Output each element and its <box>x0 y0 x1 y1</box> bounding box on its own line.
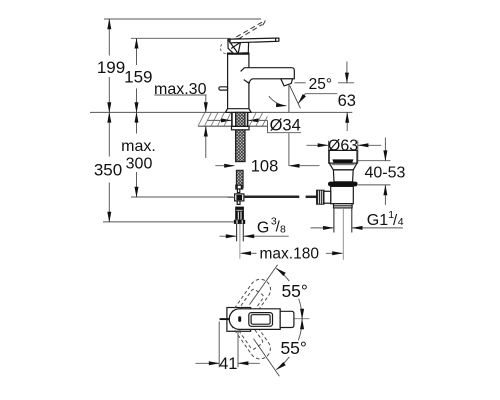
spout block <box>244 68 294 84</box>
dimension 108 arrows <box>215 133 319 166</box>
body top thick edge <box>227 52 250 54</box>
svg-text:55°: 55° <box>281 281 307 301</box>
dimension 41 arrows <box>196 362 220 364</box>
cross joint of pop-up rod <box>235 194 244 201</box>
pop-up O-ring <box>328 182 358 187</box>
G3/8 threaded tail pipe <box>236 224 238 241</box>
deck hatching right of shank <box>249 113 267 126</box>
pop-up flange <box>329 163 357 170</box>
dimension 25° leader with arrow <box>298 94 337 104</box>
dimension 40-53 arrows and extension lines <box>358 138 391 205</box>
pop-up rod level reference line (max.300) <box>131 196 233 198</box>
svg-text:350: 350 <box>94 161 122 180</box>
rod inlet port <box>323 191 331 203</box>
svg-text:G: G <box>257 220 269 237</box>
svg-text:Ø63: Ø63 <box>328 138 358 155</box>
svg-text:199: 199 <box>97 58 125 77</box>
handle lever bar <box>230 38 279 43</box>
pop-up neck <box>333 170 353 182</box>
svg-text:63: 63 <box>338 92 356 110</box>
55° lower arc with arrows <box>298 319 302 340</box>
dimension G1 1/4 arrows <box>311 227 403 229</box>
shank locking nut <box>232 126 250 129</box>
dimension 63 (spout height) arrows <box>295 62 355 132</box>
top view: escutcheon square <box>227 308 251 332</box>
top view: spout stub <box>280 311 294 327</box>
dimension Ø34 arrows at deck hole <box>207 120 301 132</box>
water stream vertical extension <box>288 85 290 112</box>
faucet handle raised position (dashed) <box>232 20 267 44</box>
deck underside line <box>198 125 267 127</box>
svg-text:max.: max. <box>121 138 156 155</box>
svg-text:Ø34: Ø34 <box>270 117 301 135</box>
55° upper arc with arrows <box>276 268 289 281</box>
threaded mounting shank (hatched) <box>236 112 245 161</box>
handle knob rotated ghost arcs (dashed) <box>220 44 245 54</box>
G3/8 hose coupling stack <box>235 207 244 210</box>
svg-text:8: 8 <box>280 224 286 236</box>
spout left chamfer <box>241 68 245 72</box>
knurled rod connector <box>317 190 325 204</box>
spout outlet (mousseur, 25° angled) <box>281 79 293 86</box>
reference line: handle raised tip level (199) <box>104 18 261 20</box>
tail pipe center line <box>239 224 241 259</box>
pop-up bottom ring nut <box>334 204 353 208</box>
supply connection level line (350 bottom) <box>103 221 240 223</box>
reference line: lever level (159) <box>131 37 231 39</box>
pop-up center line <box>342 208 344 260</box>
svg-text:108: 108 <box>251 157 279 175</box>
pop-up valve body <box>331 186 354 203</box>
dimension Ø63 arrows and extension lines <box>307 141 382 164</box>
svg-text:4: 4 <box>398 216 404 228</box>
top view: slot <box>238 316 241 322</box>
pop-up plug chamfer band <box>332 159 353 163</box>
deck hole edges (Ø34) <box>231 112 233 126</box>
threaded pull rod segment (hatched) <box>236 170 243 187</box>
pop-up waste head <box>329 150 357 163</box>
handle knob (faceted) <box>228 39 249 54</box>
rod coupling <box>236 185 243 189</box>
horizontal pop-up actuating rod <box>244 196 299 199</box>
svg-text:41: 41 <box>219 355 237 373</box>
spout swivel arc arrow <box>269 96 287 106</box>
G1 1/4 tail pipe <box>333 208 335 233</box>
svg-text:55°: 55° <box>280 338 306 358</box>
top view: left pin <box>220 318 230 320</box>
water stream 25° diagonal <box>290 85 301 108</box>
svg-text:G1: G1 <box>367 212 388 229</box>
top view: handle ghost rotated -55° (dashed) <box>225 305 274 363</box>
svg-text:max.30: max.30 <box>154 81 207 98</box>
top view: handle body <box>229 309 280 330</box>
svg-text:40-53: 40-53 <box>364 165 405 182</box>
svg-text:25°: 25° <box>309 76 332 93</box>
top view: center line right <box>295 318 310 320</box>
body base flare <box>225 109 251 113</box>
dimension 350 vertical with arrows <box>108 112 110 221</box>
top view: handle ghost rotated +55° (dashed) <box>225 275 274 333</box>
55° upper boundary line <box>250 265 278 305</box>
pull-rod knob on body left <box>219 87 228 90</box>
svg-text:300: 300 <box>126 156 153 173</box>
svg-text:max.180: max.180 <box>260 245 320 262</box>
svg-text:159: 159 <box>124 67 152 86</box>
top view: lever inner rectangles <box>249 313 273 327</box>
deck / counter top surface line <box>90 111 352 113</box>
dimension max.300 vertical with arrows <box>136 112 138 197</box>
faucet body <box>228 53 249 112</box>
deck hatching left of shank <box>198 113 231 126</box>
dimension 199 vertical with arrows <box>108 19 110 112</box>
dimension max.180 arrows <box>241 252 343 254</box>
spout underside notch <box>244 80 249 84</box>
dimension 159 vertical with arrows <box>136 38 138 112</box>
dimension max.30 leader and arrows (deck thickness) <box>154 95 206 158</box>
55° lower boundary line <box>254 339 280 376</box>
dimension G3/8 arrows <box>220 235 289 237</box>
dimension 41 extension lines <box>218 322 220 368</box>
G3/8 nut <box>234 220 245 224</box>
